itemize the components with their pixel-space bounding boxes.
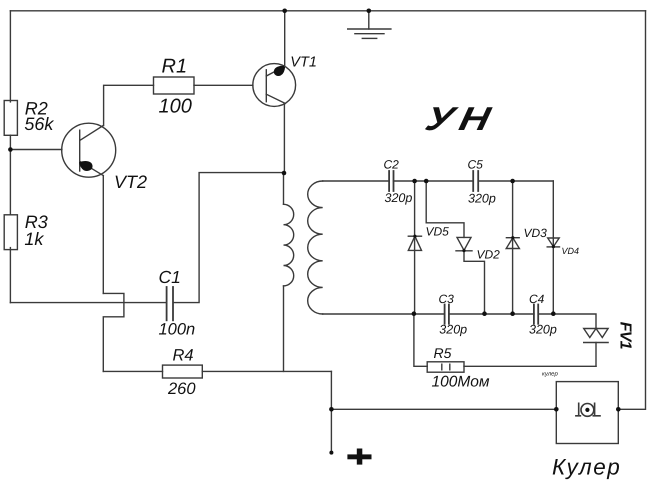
wire VT2 collector to R1 bbox=[104, 85, 154, 125]
svg-text:100: 100 bbox=[159, 96, 192, 118]
wire bottom line C3 to C4 bbox=[449, 313, 534, 315]
diode VD4 bbox=[547, 238, 559, 247]
node R2-R3 / base bbox=[8, 147, 13, 152]
fan icon bbox=[576, 403, 600, 416]
transistor VT1 bbox=[253, 64, 296, 107]
wire VD2 branch bbox=[426, 181, 464, 237]
node top line VD3 bbox=[510, 179, 515, 184]
node plus terminal bbox=[329, 451, 333, 455]
ground bbox=[348, 11, 391, 39]
wire VD5 branch bbox=[414, 181, 416, 314]
resistor R1 bbox=[154, 77, 195, 94]
capacitor C1 bbox=[167, 287, 173, 320]
svg-text:кулер: кулер bbox=[542, 372, 558, 378]
svg-text:100Мом: 100Мом bbox=[432, 374, 490, 391]
svg-text:C5: C5 bbox=[468, 157, 484, 171]
svg-text:56k: 56k bbox=[24, 114, 54, 134]
wire R5 right to FV1 bottom bbox=[464, 365, 596, 367]
node cooler right bbox=[616, 407, 621, 412]
svg-text:260: 260 bbox=[167, 380, 196, 398]
resistor R4 bbox=[163, 365, 203, 378]
svg-text:R1: R1 bbox=[162, 56, 188, 78]
wire VD4 branch bbox=[552, 181, 554, 314]
node bottom line VD2 bbox=[482, 311, 487, 316]
wire R4 left lead bbox=[103, 370, 162, 372]
wire secondary bottom lead bbox=[323, 313, 445, 315]
wire bottom line C4 to FV1 bbox=[538, 314, 596, 329]
wire C1 right up to transformer bbox=[174, 173, 284, 303]
node VT1 collector / primary bbox=[282, 171, 287, 176]
svg-text:C1: C1 bbox=[159, 267, 181, 287]
wire left rail between R2 R3 bbox=[9, 135, 11, 214]
svg-text:УН: УН bbox=[422, 100, 500, 137]
svg-text:Кулер: Кулер bbox=[552, 455, 621, 480]
transformer primary bbox=[284, 173, 294, 371]
svg-text:C4: C4 bbox=[529, 292, 545, 306]
svg-text:320p: 320p bbox=[439, 323, 467, 337]
svg-text:320p: 320p bbox=[468, 191, 496, 205]
resistor R2 bbox=[4, 101, 17, 136]
node VD2 bar bbox=[462, 249, 465, 252]
wire jog emitter node bbox=[103, 293, 124, 371]
wire left rail lower bbox=[9, 248, 11, 303]
svg-text:VD2: VD2 bbox=[477, 248, 501, 262]
wire VT1 collector down bbox=[283, 103, 285, 173]
capacitor C2 bbox=[389, 171, 393, 191]
wire VD3 branch bbox=[512, 181, 514, 314]
svg-text:VT1: VT1 bbox=[290, 55, 317, 71]
transistor VT2 bbox=[62, 123, 116, 177]
wire left rail upper bbox=[9, 11, 11, 102]
svg-text:320p: 320p bbox=[529, 323, 557, 337]
node VD5 bar bbox=[413, 235, 416, 238]
wire VT2 emitter down bbox=[102, 176, 104, 294]
node VD4 bar bbox=[552, 245, 555, 248]
transformer secondary bbox=[308, 181, 323, 314]
wire secondary top lead bbox=[323, 180, 389, 182]
diode VD3 bbox=[506, 238, 519, 249]
node plus branch bbox=[329, 407, 334, 412]
cooler box bbox=[556, 382, 618, 444]
wire R4 right lead bbox=[202, 370, 331, 372]
node VT1 emitter / top rail bbox=[282, 9, 287, 14]
node bottom line VD5 bbox=[412, 311, 417, 316]
wire top rail bbox=[10, 10, 645, 12]
wire top line C2 to C5 bbox=[394, 180, 474, 182]
wire R4 corner down to plus terminal bbox=[330, 371, 332, 452]
diode VD5 bbox=[408, 236, 421, 250]
capacitor C5 bbox=[473, 171, 478, 191]
spark gap FV1 bbox=[584, 329, 608, 367]
svg-text:VD5: VD5 bbox=[426, 225, 450, 239]
node cooler left bbox=[554, 407, 559, 412]
svg-text:R5: R5 bbox=[434, 345, 452, 361]
resistor R5 bbox=[427, 362, 464, 372]
svg-text:100n: 100n bbox=[159, 321, 196, 339]
wire VD2 to bottom line bbox=[464, 251, 485, 314]
diode VD2 bbox=[456, 237, 472, 250]
wire top line C5 to corner bbox=[478, 180, 553, 182]
plus terminal symbol bbox=[347, 449, 371, 465]
svg-text:C2: C2 bbox=[384, 157, 400, 171]
wire right rail bbox=[618, 11, 645, 410]
svg-text:320p: 320p bbox=[385, 191, 413, 205]
wire bottom to cooler bbox=[331, 408, 556, 410]
svg-text:VD3: VD3 bbox=[524, 226, 548, 240]
capacitor C4 bbox=[534, 305, 538, 324]
svg-text:VD4: VD4 bbox=[562, 246, 580, 256]
wire VT2 base bbox=[10, 149, 62, 151]
node ground / top rail bbox=[367, 9, 372, 14]
wire R5 left bbox=[414, 314, 427, 367]
node bottom line VD3 bbox=[510, 311, 515, 316]
node VD3 bar bbox=[511, 236, 514, 239]
wire VT1 emitter to top rail bbox=[284, 11, 286, 67]
svg-text:C3: C3 bbox=[439, 292, 455, 306]
wire R1 to VT1 base bbox=[194, 84, 253, 86]
node top line VD5 bbox=[412, 179, 417, 184]
svg-text:VT2: VT2 bbox=[114, 172, 147, 192]
capacitor C3 bbox=[445, 305, 449, 324]
node top line VD2 bbox=[424, 179, 429, 184]
svg-text:1k: 1k bbox=[24, 229, 44, 249]
resistor R3 bbox=[4, 215, 17, 250]
svg-text:R4: R4 bbox=[173, 346, 194, 364]
node bottom line VD4 bbox=[551, 311, 556, 316]
wire C1 left bbox=[10, 302, 166, 304]
svg-text:FV1: FV1 bbox=[616, 322, 633, 350]
